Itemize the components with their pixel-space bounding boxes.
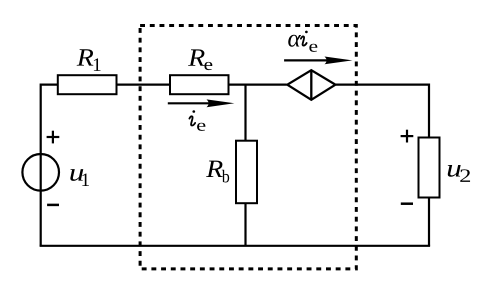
- label u1: [70, 169, 89, 186]
- label R1: [77, 49, 101, 71]
- wire: Rb to bottom wire: [244, 203, 246, 246]
- wire: source to right branch (top-right corner) and down to u2: [336, 85, 429, 138]
- polarity + of u1: [47, 131, 60, 144]
- label Rb: [206, 161, 229, 183]
- wire: u2 down to bottom wire: [428, 198, 430, 246]
- resistor Re: [170, 75, 229, 94]
- polarity - of u2: [401, 202, 413, 205]
- resistor Rb: [236, 141, 257, 204]
- arrow: current ie: [168, 99, 235, 107]
- wire: R1 to Re: [117, 83, 171, 85]
- element u2: output port rectangle: [419, 138, 440, 198]
- wire: u1 bottom to bottom wire: [40, 192, 42, 246]
- polarity + of u2: [401, 130, 414, 143]
- arrow: alpha*ie: [284, 57, 352, 65]
- label alpha*ie: [288, 31, 317, 52]
- dependent current source alpha*ie (diamond): [287, 70, 335, 100]
- label ie: [189, 110, 205, 131]
- wire: u1 top to R1 (top-left corner): [41, 85, 58, 192]
- polarity - of u1: [47, 204, 59, 207]
- label u2: [448, 165, 470, 182]
- wire: junction down to Rb: [244, 85, 246, 141]
- voltage source u1: [22, 154, 59, 191]
- wire: Re to dependent source (through Rb junction): [229, 83, 287, 85]
- resistor R1: [58, 75, 117, 94]
- dashed box: two-port model boundary: [140, 26, 356, 269]
- label Re: [188, 49, 212, 70]
- bottom wire: [40, 245, 431, 247]
